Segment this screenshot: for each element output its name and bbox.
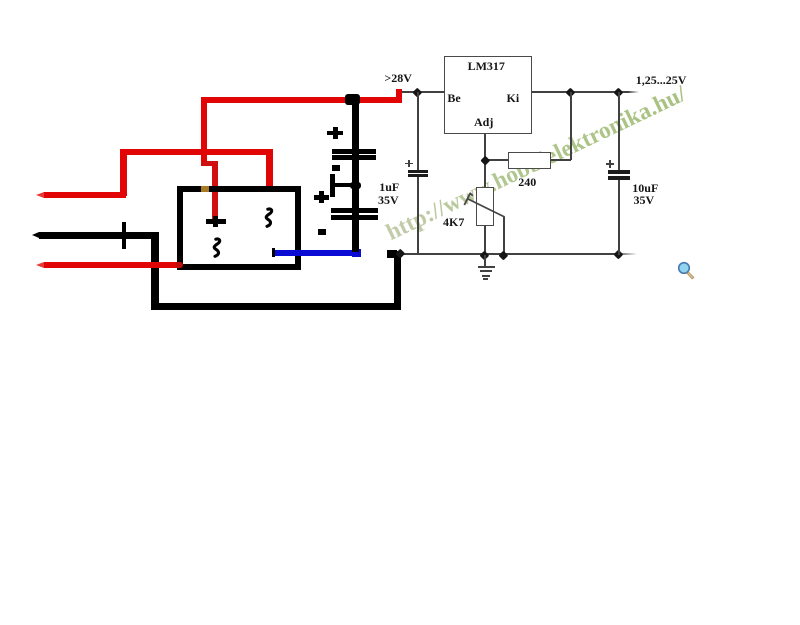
capacitor C3 1uF plates <box>408 170 428 173</box>
wire red positive rail step up at right end <box>396 89 402 103</box>
wire blue end cap <box>352 249 361 257</box>
wire black riser up to ground rail <box>394 251 401 307</box>
wire R1 left lead to Adj node <box>485 159 508 161</box>
paint smudge where red crosses box edge <box>201 186 209 192</box>
wire R1 right lead <box>551 159 571 161</box>
connector tick on black AC wire <box>122 222 126 249</box>
capacitor C2 plus mark <box>314 195 329 200</box>
capacitor C4 10uF plates <box>608 170 630 174</box>
wire black AC-input tapered tip <box>32 232 39 238</box>
bridge rectifier B1 body <box>177 186 301 270</box>
wire red drop into bridge top-right <box>266 149 273 188</box>
wire red positive rail horizontal (bridge + to caps to LM317) <box>201 97 400 103</box>
bridge + terminal mark <box>206 219 226 224</box>
wire LM317 Ki output rail <box>532 91 632 93</box>
label C4 voltage 35V <box>634 194 655 206</box>
capacitor C1 plus mark <box>327 131 342 136</box>
node Adj junction dot <box>480 156 489 165</box>
wire red AC-input upper tapered tip <box>36 192 44 198</box>
wire wiper down to ground rail <box>503 217 505 255</box>
bridge - terminal mark <box>272 248 276 258</box>
wire red AC-input lower rounded end over bridge edge <box>176 262 183 269</box>
capacitor C2 (lower electrolytic) plates <box>331 208 378 213</box>
label R1 value 240 <box>518 176 536 188</box>
magnifier cursor icon <box>672 256 700 284</box>
wire pot bottom to ground rail <box>484 226 486 256</box>
wire black bottom run under bridge <box>151 303 401 311</box>
label C4 value 10uF 35V <box>632 182 658 194</box>
wire black filter-cap stack vertical <box>352 97 359 252</box>
junction blob on + rail at filter caps <box>345 94 360 105</box>
wire red AC-input upper (to bridge ~ top) horizontal left <box>44 192 126 199</box>
wire blue bridge minus to filter caps <box>275 250 362 256</box>
pin label Be <box>447 92 460 104</box>
potentiometer wiper arrow <box>455 185 511 225</box>
capacitor C1 minus dot <box>332 165 340 171</box>
junction blob between series caps with stub <box>350 182 361 190</box>
bridge ~ mark bottom-left <box>207 237 227 259</box>
label C3 voltage 35V <box>378 194 399 206</box>
label P1 value 4K7 <box>443 216 464 228</box>
node wiper dot <box>499 250 509 260</box>
wire black vertical down at left of bridge <box>151 232 159 306</box>
wire Ki branch down to R1 <box>570 92 572 160</box>
node pot bottom dot <box>480 250 490 260</box>
wire red jog <box>201 161 218 166</box>
bridge ~ mark top-right <box>259 207 279 229</box>
wire red AC-input lower horizontal <box>44 262 180 269</box>
node ground rail dot at black riser <box>396 249 405 258</box>
capacitor C4 plus mark <box>606 163 614 165</box>
label C3 value 1uF 35V <box>379 181 399 193</box>
resistor R1 240 body <box>508 152 551 170</box>
wire black AC-input horizontal <box>39 232 158 240</box>
label input voltage >28V <box>384 72 412 84</box>
wire red AC-input upper vertical riser <box>120 149 127 196</box>
wire vertical 1uF branch <box>417 92 419 170</box>
wire output branch down to C4 <box>618 92 620 170</box>
pin label Adj <box>474 116 493 128</box>
capacitor C3 plus mark <box>405 163 413 165</box>
wire red AC-input lower tapered tip <box>36 262 44 268</box>
node 10uF bottom dot <box>614 249 624 259</box>
wire ground rail <box>400 253 620 255</box>
capacitor C1 (upper electrolytic) plates <box>332 149 376 153</box>
watermark www.hobbielektronika.hu <box>383 83 690 245</box>
pin label Ki <box>507 92 520 104</box>
label output voltage 1,25...25V <box>636 74 687 86</box>
wire input to LM317 Be <box>402 91 444 93</box>
node output junction dot 2 <box>614 87 624 97</box>
wire red AC-input upper horizontal to bridge <box>120 149 273 155</box>
node output junction dot 1 <box>566 87 576 97</box>
wire black hook at riser top <box>387 250 397 258</box>
wire Adj pin down <box>484 133 486 187</box>
ground symbol <box>484 255 486 267</box>
potentiometer P1 body <box>476 187 494 226</box>
wire red vertical from + rail down toward bridge <box>201 97 207 163</box>
node input junction dot <box>413 88 422 97</box>
regulator U1 LM317 body <box>444 56 532 134</box>
wire red into bridge + terminal <box>212 161 218 219</box>
label LM317 <box>468 60 505 72</box>
capacitor C2 minus dot <box>318 229 326 235</box>
